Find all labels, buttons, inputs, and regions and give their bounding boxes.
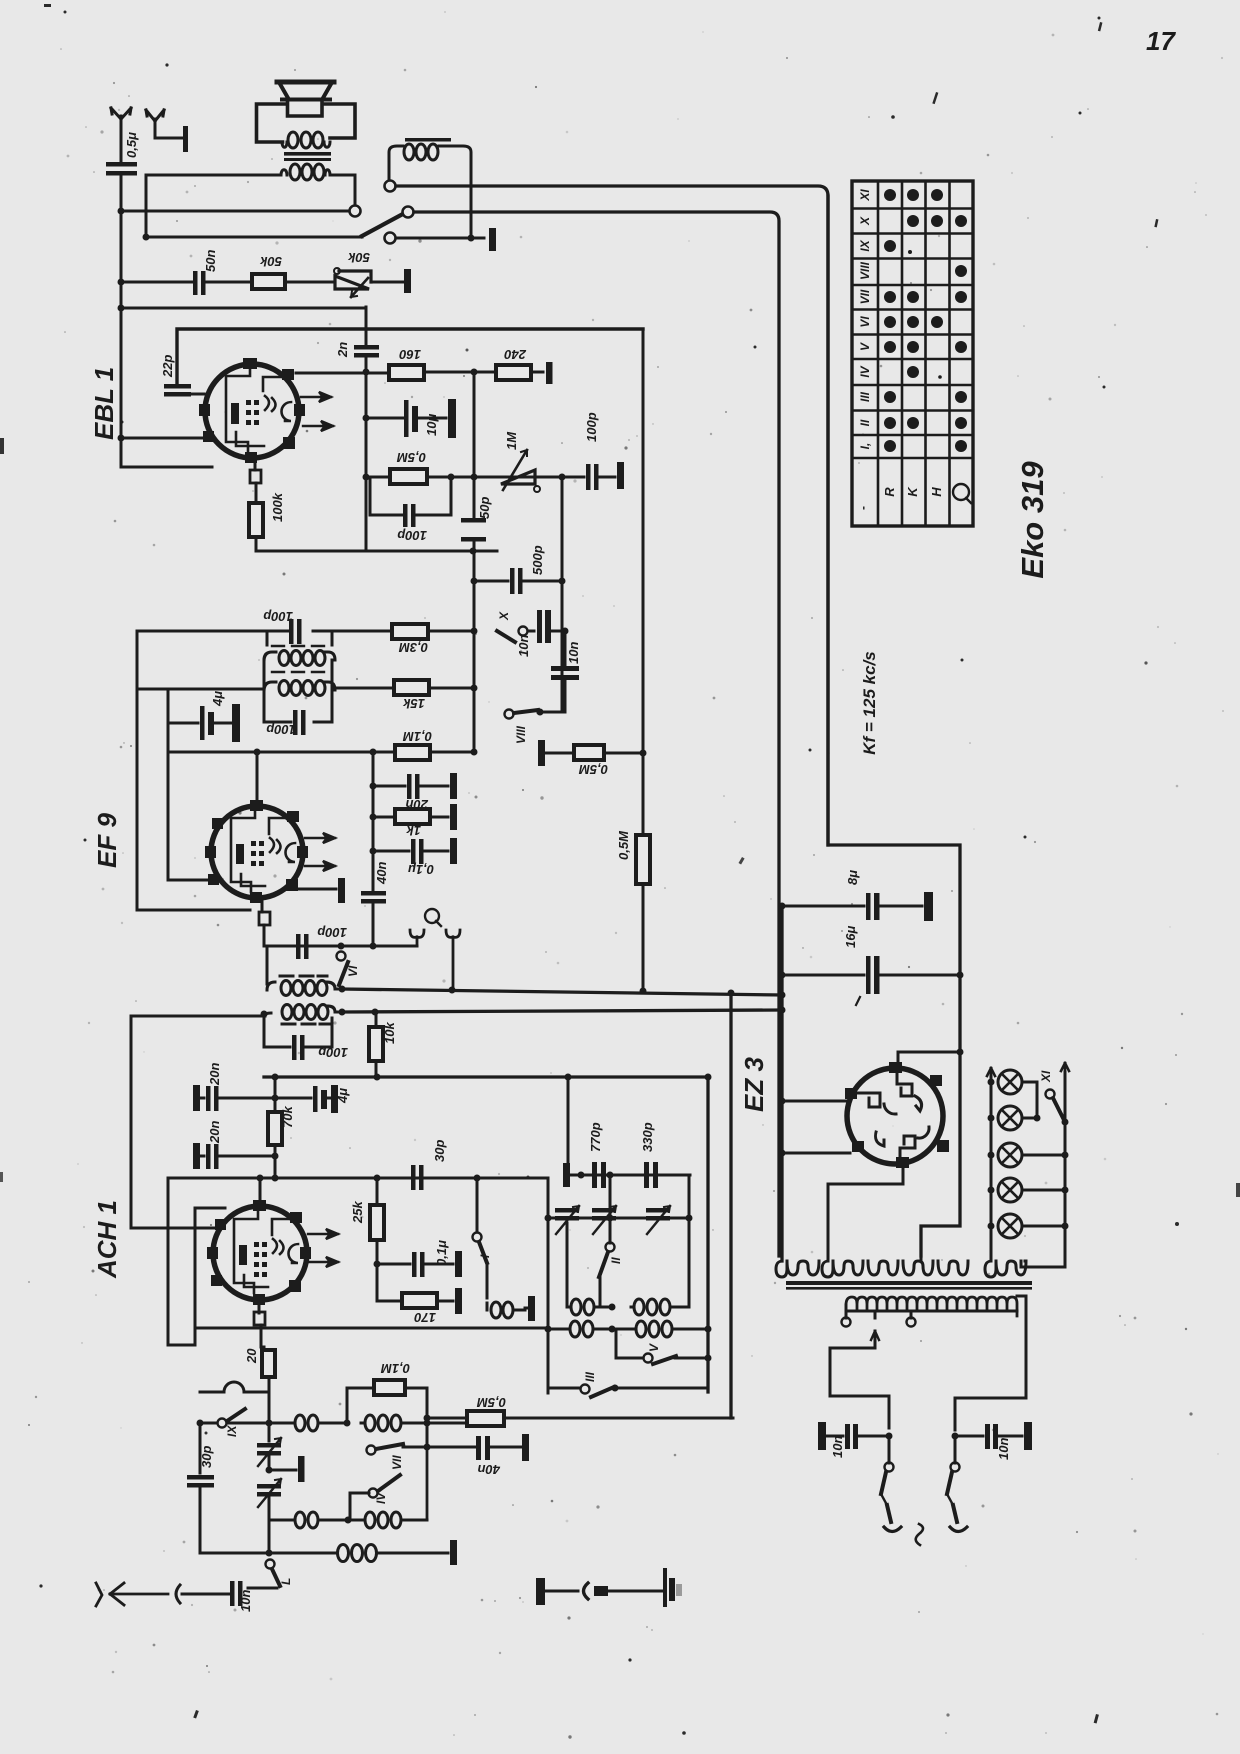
- svg-text:4μ: 4μ: [210, 691, 225, 707]
- lamp feed arrow right: [1061, 1063, 1069, 1072]
- switch IV: [350, 1475, 400, 1520]
- resistor 0.5M (vertical): [636, 329, 650, 990]
- svg-text:240: 240: [504, 347, 527, 362]
- switch contact C (coil): [385, 181, 396, 192]
- vertical x474: [473, 372, 476, 752]
- antenna 1: [111, 108, 131, 128]
- tube EZ3 envelope: [847, 1068, 943, 1164]
- vertical x610 / x689: [567, 1175, 689, 1307]
- switch III: [548, 1385, 708, 1398]
- capacitor 8u: [782, 892, 933, 921]
- EBL1 box frame: [177, 329, 643, 384]
- wire y1423: [200, 1422, 292, 1425]
- IF transformer 1: [264, 631, 335, 722]
- wire y1423 right: [427, 1422, 467, 1425]
- mains tilde: [916, 1524, 923, 1545]
- EF9 box left: [137, 631, 250, 910]
- vertical x366 down: [365, 372, 368, 551]
- capacitor 20n (upper): [193, 1085, 275, 1111]
- vertical x373: [372, 752, 375, 946]
- svg-text:0,5M: 0,5M: [396, 450, 426, 465]
- svg-text:50k: 50k: [260, 254, 282, 269]
- lamp 3: [988, 1143, 1069, 1167]
- lamp 4: [988, 1178, 1069, 1202]
- switch contact B: [403, 207, 414, 218]
- resistor 0.1M (ant) loop: [347, 1380, 427, 1423]
- anode arrow 2: [303, 421, 333, 431]
- svg-text:VIII: VIII: [514, 725, 528, 744]
- switch L: [248, 1560, 280, 1589]
- resistor 0.1M: [395, 745, 430, 760]
- capacitor 50p: [461, 518, 486, 542]
- antenna coil 1: [292, 1415, 347, 1431]
- oscillator coil row 2: [548, 1321, 708, 1337]
- cathode chassis bar: [298, 878, 345, 903]
- svg-text:17: 17: [1146, 26, 1176, 56]
- resistor 20: [262, 1347, 275, 1423]
- svg-text:2n: 2n: [335, 342, 350, 358]
- svg-text:30p: 30p: [432, 1140, 447, 1162]
- wire y551 cathode bus: [256, 550, 497, 553]
- tube EZ3 top feed: [898, 1052, 960, 1068]
- lamp feed arrow left: [987, 1068, 995, 1076]
- bottom center link: [545, 1590, 578, 1593]
- capacitor 100p (IF1 top): [289, 619, 302, 644]
- secondary right side: [955, 1296, 1026, 1430]
- anode arrow 1: [305, 833, 335, 843]
- wire y238: [396, 237, 484, 240]
- IF transformer 2: [131, 946, 346, 1228]
- capacitor 100p parallel loop: [370, 477, 451, 527]
- switch IX: [218, 1409, 246, 1428]
- resistor 170: [377, 1264, 462, 1314]
- svg-text:0,5M: 0,5M: [476, 1395, 506, 1410]
- lamp 2: [988, 1106, 1041, 1130]
- wire hop: [200, 1382, 268, 1392]
- long wire y186 to right: [396, 186, 828, 845]
- pickup symbol Q: [425, 909, 441, 926]
- ground stub (ant): [266, 1456, 305, 1482]
- svg-text:50k: 50k: [348, 250, 370, 265]
- svg-text:EZ 3: EZ 3: [739, 1057, 769, 1112]
- svg-text:50n: 50n: [203, 250, 218, 272]
- svg-text:II: II: [858, 419, 872, 426]
- bottom center jaw: [584, 1583, 589, 1599]
- capacitor 770p: [592, 1162, 606, 1188]
- wire y1218 trimmer row: [548, 1217, 689, 1220]
- capacitor 20n (lower): [193, 1143, 275, 1169]
- wire secondary left: [146, 174, 281, 177]
- switch XI: [1046, 1090, 1065, 1121]
- tube EBL1 pins: [199, 358, 305, 463]
- potentiometer 50k: [334, 268, 404, 297]
- primary winding: [776, 1261, 1026, 1277]
- mains switch right: [947, 1436, 967, 1532]
- svg-text:0,1μ: 0,1μ: [434, 1240, 449, 1266]
- wire y308: [121, 307, 366, 310]
- svg-text:100p: 100p: [397, 528, 427, 543]
- vertical x568 top feed: [567, 1077, 570, 1163]
- svg-text:20n: 20n: [207, 1063, 222, 1086]
- tube EZ3 internals: [858, 1071, 929, 1161]
- svg-text:IV: IV: [374, 1492, 388, 1504]
- inner frame x168: [168, 689, 222, 880]
- svg-text:V: V: [647, 1343, 661, 1352]
- wire coil left lead: [388, 160, 391, 180]
- ground bar (switch I coil): [528, 1296, 535, 1321]
- lamp feed left vertical: [990, 1076, 993, 1261]
- tube EF9 internals: [231, 808, 295, 892]
- capacitor 10u: [366, 399, 456, 438]
- trimmer capacitor 1: [555, 1206, 579, 1234]
- wire y282 volume bus: [121, 281, 193, 284]
- wire anode bus y372: [296, 372, 496, 373]
- anode arrow 2: [305, 861, 335, 871]
- wire to tube pin y438: [121, 437, 206, 440]
- cathode square ACH1: [254, 1312, 265, 1325]
- wire secondary right down: [330, 175, 355, 205]
- svg-text:100p: 100p: [317, 925, 347, 940]
- wire to pot: [285, 281, 335, 284]
- svg-text:10n: 10n: [830, 1436, 845, 1458]
- trimmer capacitor (ant lower): [257, 1479, 281, 1553]
- capacitor 0.1u (ACH1): [377, 1251, 462, 1277]
- svg-text:VII: VII: [858, 289, 872, 304]
- svg-text:40n: 40n: [478, 1462, 501, 1477]
- secondary winding: [846, 1297, 1017, 1316]
- tone coil: [389, 144, 471, 160]
- capacitor 330p: [644, 1162, 658, 1188]
- trimmer capacitor (ant upper): [257, 1423, 281, 1470]
- resistor 0.3M: [392, 624, 428, 639]
- svg-text:1M: 1M: [504, 431, 519, 450]
- tube EZ3 pins: [845, 1062, 949, 1168]
- bottom center wire: [608, 1590, 665, 1593]
- svg-text:0,1μ: 0,1μ: [408, 862, 434, 877]
- svg-text:10n: 10n: [996, 1438, 1011, 1460]
- ground bar: [489, 228, 496, 251]
- svg-text:H: H: [929, 487, 944, 497]
- table row labels: [858, 189, 872, 450]
- svg-text:0,1M: 0,1M: [380, 1361, 410, 1376]
- svg-text:25k: 25k: [350, 1201, 365, 1224]
- svg-text:100k: 100k: [270, 492, 285, 522]
- svg-text:K: K: [905, 486, 920, 497]
- tube ACH1 internals: [234, 1209, 298, 1293]
- antenna 2 (earth): [146, 110, 183, 138]
- wire y1077: [264, 1075, 708, 1078]
- trimmer capacitor 3: [646, 1206, 670, 1234]
- capacitor 10n (bottom left): [182, 1581, 243, 1606]
- wire to tube pin y467: [121, 466, 212, 469]
- svg-text:X: X: [858, 216, 872, 226]
- chassis bar (osc): [563, 1163, 570, 1187]
- bottom center plug pin: [594, 1586, 608, 1596]
- ACH1 inner frame: [195, 1208, 548, 1328]
- svg-text:III: III: [858, 391, 872, 402]
- svg-text:8μ: 8μ: [845, 870, 860, 885]
- svg-text:10n: 10n: [566, 642, 581, 664]
- svg-text:Eko 319: Eko 319: [1015, 461, 1050, 579]
- svg-text:ACH 1: ACH 1: [92, 1200, 122, 1279]
- svg-text:22p: 22p: [160, 355, 175, 378]
- pickup fork terminal 2: [446, 930, 460, 988]
- tube EF9 pins: [205, 800, 308, 903]
- anode arrow 1: [301, 392, 331, 402]
- table dots: [884, 189, 967, 452]
- trimmer capacitor 2: [592, 1206, 616, 1234]
- tube EBL1 internals: [226, 366, 291, 453]
- capacitor 10n (upper): [528, 610, 565, 643]
- wire bottom y1553: [200, 1552, 330, 1555]
- switch blade: [362, 215, 401, 236]
- vertical x548: [547, 1178, 550, 1393]
- right feed staircase: [921, 1226, 960, 1261]
- svg-text:330p: 330p: [640, 1122, 655, 1152]
- tube top feed: [256, 752, 259, 804]
- capacitor 30p (ant): [187, 1423, 214, 1553]
- svg-text:EBL 1: EBL 1: [89, 367, 119, 440]
- svg-text:III: III: [583, 1371, 597, 1382]
- output transformer primary coil: [282, 132, 330, 148]
- capacitor 100p: [561, 462, 624, 490]
- svg-text:I,: I,: [858, 443, 872, 450]
- switch contact A: [350, 206, 361, 217]
- switch X blade: [497, 631, 515, 642]
- wire grid bus y631: [137, 630, 474, 633]
- bottom coil: [330, 1545, 448, 1562]
- pickup fork terminal 1: [410, 930, 424, 946]
- switch V: [616, 1329, 712, 1364]
- capacitor 100p (IF2): [261, 1011, 333, 1061]
- potentiometer 1M: [501, 450, 540, 492]
- capacitor 10n (mains left): [818, 1422, 893, 1450]
- capacitor 30p: [411, 1165, 424, 1190]
- ground bar: [546, 362, 553, 384]
- antenna coil 3: [269, 1512, 348, 1528]
- wire grid bus y752: [168, 751, 474, 754]
- lamp parallel link: [1036, 1082, 1039, 1118]
- svg-text:20: 20: [244, 1348, 259, 1364]
- svg-text:770p: 770p: [588, 1122, 603, 1152]
- antenna coil 4: [348, 1447, 427, 1528]
- svg-text:VI: VI: [858, 316, 872, 328]
- resistor 25k: [370, 1178, 384, 1264]
- speaker cone: [277, 82, 334, 100]
- svg-text:100p: 100p: [266, 722, 296, 737]
- arrow terminal (bottom left): [96, 1583, 168, 1606]
- ground bar after pot: [404, 269, 411, 293]
- cathode square: [254, 463, 257, 470]
- svg-text:XI: XI: [858, 189, 872, 202]
- switch VI: [337, 952, 349, 986]
- svg-text:0,3M: 0,3M: [398, 640, 428, 655]
- wire x427 drop: [426, 1418, 429, 1447]
- svg-text:VIII: VIII: [858, 261, 872, 280]
- wire corner x828 to x960: [828, 196, 960, 1256]
- svg-text:R: R: [882, 487, 897, 497]
- wire EZ3 anode 2: [782, 1152, 850, 1155]
- switch VII: [367, 1444, 428, 1455]
- switch contact D: [385, 233, 396, 244]
- tone coil hatching: [405, 138, 451, 142]
- switch I: [473, 1178, 488, 1298]
- wire coil right lead: [470, 160, 473, 238]
- wire left drop x122: [120, 175, 123, 467]
- anode arrow 2: [308, 1257, 338, 1267]
- mains switch left: [881, 1436, 901, 1532]
- switch VIII: [505, 709, 566, 719]
- lamp 1: [988, 1070, 1038, 1094]
- lamp feed right vertical: [1021, 1072, 1065, 1267]
- capacitor 2n: [354, 307, 379, 372]
- oscillator inner box right: [706, 1077, 709, 1392]
- bottom center terminal bar: [536, 1578, 545, 1605]
- wire y477 to right: [451, 476, 561, 479]
- svg-text:15k: 15k: [403, 696, 425, 711]
- svg-text:20n: 20n: [207, 1121, 222, 1144]
- output transformer secondary coil: [281, 164, 330, 180]
- wire top bus y211: [121, 210, 349, 213]
- wire y990: [342, 989, 782, 995]
- coil (switch I): [487, 1302, 525, 1318]
- wire vertical x146: [145, 175, 148, 237]
- svg-text:XI: XI: [1039, 1070, 1053, 1083]
- capacitor 10n (mains right): [952, 1422, 1033, 1450]
- capacitor 40n: [361, 891, 386, 904]
- antenna coil 2: [361, 1415, 427, 1431]
- bottom center jack: [663, 1568, 682, 1607]
- svg-text:500p: 500p: [530, 545, 545, 575]
- resistor 160: [389, 365, 424, 380]
- capacitor 100p (IF1 bottom): [293, 710, 306, 735]
- svg-text:-: -: [856, 506, 870, 510]
- secondary taps: [830, 1311, 916, 1428]
- wire to ground: [531, 371, 543, 374]
- resistor 15k: [332, 680, 474, 695]
- svg-text:VII: VII: [390, 1455, 404, 1470]
- tube socket table: [852, 181, 973, 526]
- wire y1175: [570, 1174, 690, 1177]
- resistor 70k: [268, 1077, 282, 1178]
- wire y237: [146, 236, 362, 239]
- ACH1 box frame: [168, 1178, 548, 1345]
- long wire y212 to right: [414, 212, 779, 1256]
- capacitor 22p: [164, 384, 204, 397]
- wire y946: [264, 945, 417, 948]
- switch II: [599, 1218, 615, 1307]
- table dial symbol: [953, 484, 971, 503]
- vertical x565: [564, 631, 567, 712]
- cathode square EF9: [259, 912, 270, 925]
- tube EF9 envelope: [211, 806, 303, 898]
- switch X contact: [519, 627, 528, 636]
- svg-text:IX: IX: [225, 1425, 239, 1437]
- node A junction: [118, 208, 125, 215]
- resistor 100k: [249, 483, 263, 551]
- svg-text:0,1M: 0,1M: [402, 729, 432, 744]
- core bars: [786, 1281, 1032, 1285]
- resistor 10k: [369, 1012, 383, 1077]
- resistor 0.5M (horizontal): [538, 740, 643, 766]
- capacitor 16u: [782, 956, 960, 1005]
- ground bar (bottom coil): [450, 1540, 457, 1565]
- vertical x562: [561, 477, 564, 712]
- earth bar: [183, 126, 188, 152]
- capacitor 4u (ACH1): [275, 1085, 338, 1113]
- svg-text:0,5M: 0,5M: [616, 830, 631, 860]
- svg-text:Kf = 125 kc/s: Kf = 125 kc/s: [860, 651, 879, 755]
- svg-text:IX: IX: [858, 239, 872, 251]
- svg-text:40n: 40n: [374, 862, 389, 885]
- oscillator coil row 1: [567, 1299, 689, 1315]
- lamp 5: [988, 1214, 1069, 1238]
- wire EZ3 anode 1: [782, 1100, 846, 1103]
- wire y1010: [342, 1010, 782, 1012]
- tube ACH1 pins: [207, 1200, 311, 1305]
- table column labels: [882, 486, 944, 497]
- anode arrow 1: [308, 1229, 338, 1239]
- svg-text:160: 160: [399, 347, 421, 362]
- capacitor 0.5u: [106, 128, 137, 176]
- svg-text:100p: 100p: [263, 609, 293, 624]
- output transformer frame: [257, 104, 356, 142]
- capacitor 100p (AVC): [296, 934, 309, 959]
- svg-text:X: X: [497, 611, 511, 621]
- capacitor 50n: [193, 271, 252, 295]
- svg-text:16μ: 16μ: [843, 926, 858, 948]
- EZ3 cathode staircase: [828, 1164, 903, 1261]
- capacitor 20n: [373, 773, 457, 799]
- resistor 240: [496, 365, 531, 380]
- resistor 0.5M: [366, 469, 451, 484]
- capacitor 0.1u: [373, 838, 457, 864]
- tube EBL1 envelope: [205, 364, 299, 458]
- svg-text:II: II: [609, 1257, 623, 1264]
- aerial terminal hook: [176, 1585, 180, 1603]
- capacitor 500p: [474, 568, 562, 594]
- svg-text:0,5μ: 0,5μ: [124, 132, 139, 158]
- svg-text:100p: 100p: [584, 412, 599, 442]
- speaker voice coil former: [288, 101, 323, 116]
- resistor 0.5M (ant): [427, 1411, 733, 1426]
- tube ACH1 envelope: [213, 1206, 307, 1300]
- capacitor 4u: [168, 704, 240, 742]
- oscillator outer box: [729, 993, 732, 1418]
- svg-text:50p: 50p: [477, 497, 492, 519]
- capacitor 40n (ant): [427, 1434, 529, 1461]
- wire y689: [137, 688, 264, 691]
- svg-text:EF 9: EF 9: [92, 813, 122, 868]
- svg-text:V: V: [858, 342, 872, 351]
- svg-text:0,5M: 0,5M: [578, 762, 608, 777]
- svg-text:170: 170: [414, 1310, 436, 1325]
- vertical x782 feeds: [780, 906, 783, 1261]
- resistor 1k: [373, 804, 457, 830]
- svg-text:IV: IV: [858, 365, 872, 377]
- capacitor 10n (lower): [551, 666, 579, 680]
- output transformer core: [284, 152, 331, 156]
- resistor 50k: [252, 274, 285, 289]
- svg-text:10n: 10n: [516, 635, 531, 657]
- tube ACH1 top feed: [259, 1178, 262, 1202]
